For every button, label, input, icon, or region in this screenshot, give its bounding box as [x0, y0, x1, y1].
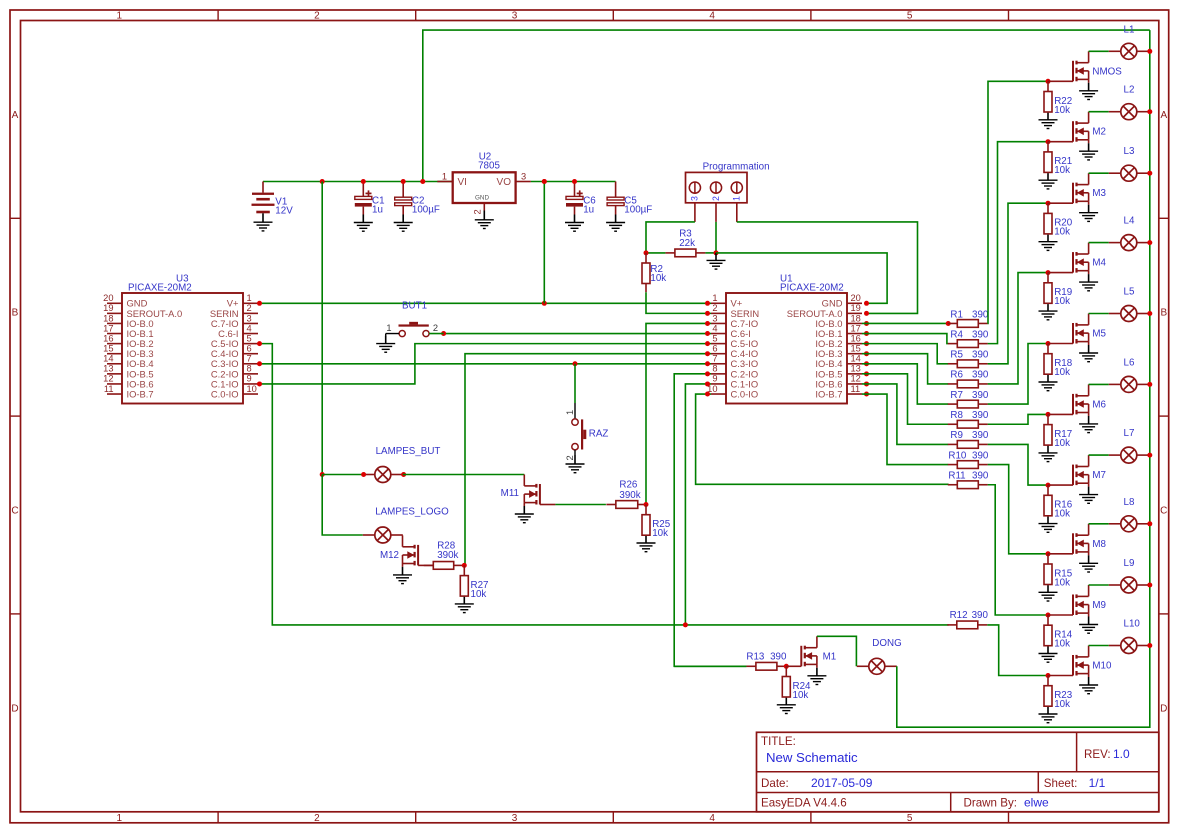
svg-text:13: 13	[851, 364, 861, 374]
svg-text:PICAXE-20M2: PICAXE-20M2	[780, 283, 844, 294]
svg-text:3: 3	[521, 172, 526, 182]
svg-text:BUT1: BUT1	[402, 301, 427, 312]
svg-text:22k: 22k	[679, 238, 695, 249]
svg-text:15: 15	[851, 344, 861, 354]
svg-text:REV:: REV:	[1084, 748, 1111, 761]
svg-text:5: 5	[712, 333, 717, 343]
svg-text:18: 18	[103, 313, 113, 323]
svg-text:390: 390	[972, 471, 989, 482]
svg-text:R8: R8	[950, 410, 963, 421]
svg-text:3: 3	[512, 813, 518, 824]
svg-text:M6: M6	[1092, 399, 1106, 410]
svg-text:10k: 10k	[1054, 639, 1070, 650]
svg-text:D: D	[1160, 703, 1167, 714]
svg-text:1: 1	[117, 813, 123, 824]
svg-text:Date:: Date:	[761, 777, 789, 790]
svg-text:A: A	[12, 110, 19, 121]
svg-text:1: 1	[442, 172, 447, 182]
svg-text:18: 18	[851, 313, 861, 323]
svg-text:10k: 10k	[1054, 438, 1070, 449]
svg-text:10k: 10k	[652, 528, 668, 539]
svg-text:D: D	[11, 703, 18, 714]
svg-text:16: 16	[103, 333, 113, 343]
svg-text:B: B	[1160, 308, 1167, 319]
svg-text:Programmation: Programmation	[703, 161, 770, 172]
svg-text:2: 2	[472, 209, 482, 214]
svg-text:1: 1	[732, 196, 742, 201]
svg-text:7805: 7805	[478, 161, 500, 172]
svg-text:VI: VI	[458, 177, 467, 188]
svg-text:10k: 10k	[650, 273, 666, 284]
svg-text:390: 390	[972, 610, 989, 621]
svg-text:19: 19	[103, 303, 113, 313]
svg-text:M5: M5	[1092, 329, 1106, 340]
svg-text:1: 1	[386, 323, 391, 333]
svg-text:13: 13	[103, 364, 113, 374]
svg-text:11: 11	[851, 384, 861, 394]
svg-text:8: 8	[712, 364, 717, 374]
svg-text:14: 14	[103, 354, 113, 364]
svg-text:LAMPES_BUT: LAMPES_BUT	[376, 446, 441, 457]
svg-text:L5: L5	[1124, 287, 1135, 298]
svg-text:L6: L6	[1124, 357, 1135, 368]
svg-text:B: B	[12, 308, 19, 319]
svg-text:390: 390	[972, 450, 989, 461]
svg-text:1u: 1u	[583, 204, 594, 215]
svg-text:12V: 12V	[275, 206, 293, 217]
svg-text:20: 20	[103, 293, 113, 303]
svg-text:M4: M4	[1092, 258, 1106, 269]
svg-text:390: 390	[972, 350, 989, 361]
svg-text:5: 5	[247, 333, 252, 343]
svg-text:2: 2	[711, 196, 721, 201]
svg-text:9: 9	[247, 374, 252, 384]
svg-text:100µF: 100µF	[412, 204, 440, 215]
svg-text:390: 390	[972, 309, 989, 320]
svg-text:2: 2	[247, 303, 252, 313]
svg-text:390k: 390k	[619, 490, 640, 501]
svg-text:100µF: 100µF	[624, 204, 652, 215]
svg-text:PICAXE-20M2: PICAXE-20M2	[128, 283, 192, 294]
svg-text:R4: R4	[950, 329, 963, 340]
svg-text:7: 7	[247, 354, 252, 364]
svg-text:R6: R6	[950, 370, 963, 381]
svg-text:LAMPES_LOGO: LAMPES_LOGO	[375, 507, 449, 518]
svg-text:New Schematic: New Schematic	[766, 750, 858, 765]
svg-text:R12: R12	[950, 610, 968, 621]
svg-text:C: C	[1160, 506, 1167, 517]
svg-text:L4: L4	[1124, 216, 1135, 227]
svg-text:GND: GND	[475, 195, 489, 202]
svg-text:17: 17	[851, 323, 861, 333]
svg-text:Sheet:: Sheet:	[1044, 777, 1078, 790]
svg-text:M10: M10	[1092, 661, 1112, 672]
svg-text:4: 4	[709, 813, 715, 824]
svg-text:L1: L1	[1124, 24, 1135, 35]
svg-text:3: 3	[690, 196, 700, 201]
svg-text:390: 390	[972, 329, 989, 340]
svg-text:VO: VO	[497, 177, 512, 188]
svg-text:TITLE:: TITLE:	[761, 735, 796, 748]
svg-text:R10: R10	[948, 450, 967, 461]
svg-text:6: 6	[712, 344, 717, 354]
svg-text:10k: 10k	[1054, 105, 1070, 116]
svg-text:16: 16	[851, 333, 861, 343]
svg-text:RAZ: RAZ	[589, 429, 609, 440]
svg-text:3: 3	[712, 313, 717, 323]
svg-text:390: 390	[972, 410, 989, 421]
svg-text:1: 1	[247, 293, 252, 303]
svg-text:1: 1	[117, 11, 123, 22]
svg-text:L8: L8	[1124, 497, 1135, 508]
svg-text:L7: L7	[1124, 428, 1135, 439]
svg-text:1: 1	[565, 410, 575, 415]
svg-text:C.0-IO: C.0-IO	[731, 388, 759, 399]
svg-text:3: 3	[512, 11, 518, 22]
svg-text:4: 4	[247, 323, 252, 333]
svg-text:10k: 10k	[1054, 509, 1070, 520]
svg-text:M3: M3	[1092, 188, 1106, 199]
svg-text:6: 6	[247, 344, 252, 354]
svg-text:390: 390	[972, 370, 989, 381]
svg-text:1: 1	[712, 293, 717, 303]
svg-text:DONG: DONG	[872, 638, 901, 649]
svg-text:7: 7	[712, 354, 717, 364]
svg-text:9: 9	[712, 374, 717, 384]
svg-text:12: 12	[103, 374, 113, 384]
svg-text:11: 11	[104, 384, 114, 394]
svg-text:L3: L3	[1124, 146, 1135, 157]
svg-text:20: 20	[851, 293, 861, 303]
svg-text:2: 2	[314, 11, 320, 22]
svg-text:15: 15	[103, 344, 113, 354]
svg-text:L10: L10	[1124, 619, 1141, 630]
svg-text:C.0-IO: C.0-IO	[211, 388, 239, 399]
svg-text:M12: M12	[380, 550, 399, 561]
svg-text:Drawn By:: Drawn By:	[964, 797, 1017, 810]
svg-text:5: 5	[907, 11, 913, 22]
svg-text:elwe: elwe	[1024, 796, 1049, 810]
svg-text:1.0: 1.0	[1113, 747, 1130, 761]
svg-text:M1: M1	[823, 652, 837, 663]
svg-text:8: 8	[247, 364, 252, 374]
svg-text:C: C	[11, 506, 18, 517]
svg-text:390: 390	[770, 652, 787, 663]
svg-text:10k: 10k	[1054, 699, 1070, 710]
svg-text:R5: R5	[950, 350, 963, 361]
svg-text:390: 390	[972, 430, 989, 441]
svg-text:2017-05-09: 2017-05-09	[811, 776, 873, 790]
svg-text:IO-B.7: IO-B.7	[815, 388, 842, 399]
svg-text:M9: M9	[1092, 600, 1106, 611]
svg-text:L9: L9	[1124, 558, 1135, 569]
svg-text:14: 14	[851, 354, 861, 364]
svg-text:L2: L2	[1124, 85, 1135, 96]
svg-text:R13: R13	[746, 652, 765, 663]
svg-text:10k: 10k	[793, 690, 809, 701]
svg-text:IO-B.7: IO-B.7	[127, 388, 154, 399]
svg-text:10: 10	[247, 384, 257, 394]
svg-text:2: 2	[433, 323, 438, 333]
svg-text:M7: M7	[1092, 470, 1106, 481]
svg-text:390: 390	[972, 390, 989, 401]
svg-text:R9: R9	[950, 430, 963, 441]
svg-text:10k: 10k	[1054, 296, 1070, 307]
svg-text:M8: M8	[1092, 539, 1106, 550]
svg-text:2: 2	[565, 455, 575, 460]
svg-text:2: 2	[712, 303, 717, 313]
svg-text:4: 4	[709, 11, 715, 22]
svg-text:4: 4	[712, 323, 717, 333]
svg-text:10k: 10k	[1054, 577, 1070, 588]
svg-text:A: A	[1160, 110, 1167, 121]
svg-text:NMOS: NMOS	[1092, 66, 1122, 77]
svg-text:M11: M11	[501, 488, 519, 499]
svg-text:R26: R26	[619, 479, 638, 490]
svg-text:10k: 10k	[1054, 367, 1070, 378]
svg-text:390k: 390k	[437, 550, 458, 561]
svg-text:10k: 10k	[1054, 165, 1070, 176]
svg-text:R7: R7	[950, 390, 963, 401]
svg-text:1u: 1u	[372, 204, 383, 215]
svg-text:EasyEDA V4.4.6: EasyEDA V4.4.6	[761, 797, 847, 810]
svg-text:2: 2	[314, 813, 320, 824]
svg-text:10k: 10k	[471, 589, 487, 600]
svg-text:5: 5	[907, 813, 913, 824]
svg-text:1/1: 1/1	[1089, 776, 1106, 790]
svg-text:R1: R1	[950, 309, 963, 320]
svg-text:M2: M2	[1092, 127, 1106, 138]
svg-text:12: 12	[851, 374, 861, 384]
svg-text:3: 3	[247, 313, 252, 323]
svg-text:17: 17	[103, 323, 113, 333]
svg-text:10k: 10k	[1054, 227, 1070, 238]
svg-text:19: 19	[851, 303, 861, 313]
svg-text:R11: R11	[948, 471, 965, 482]
